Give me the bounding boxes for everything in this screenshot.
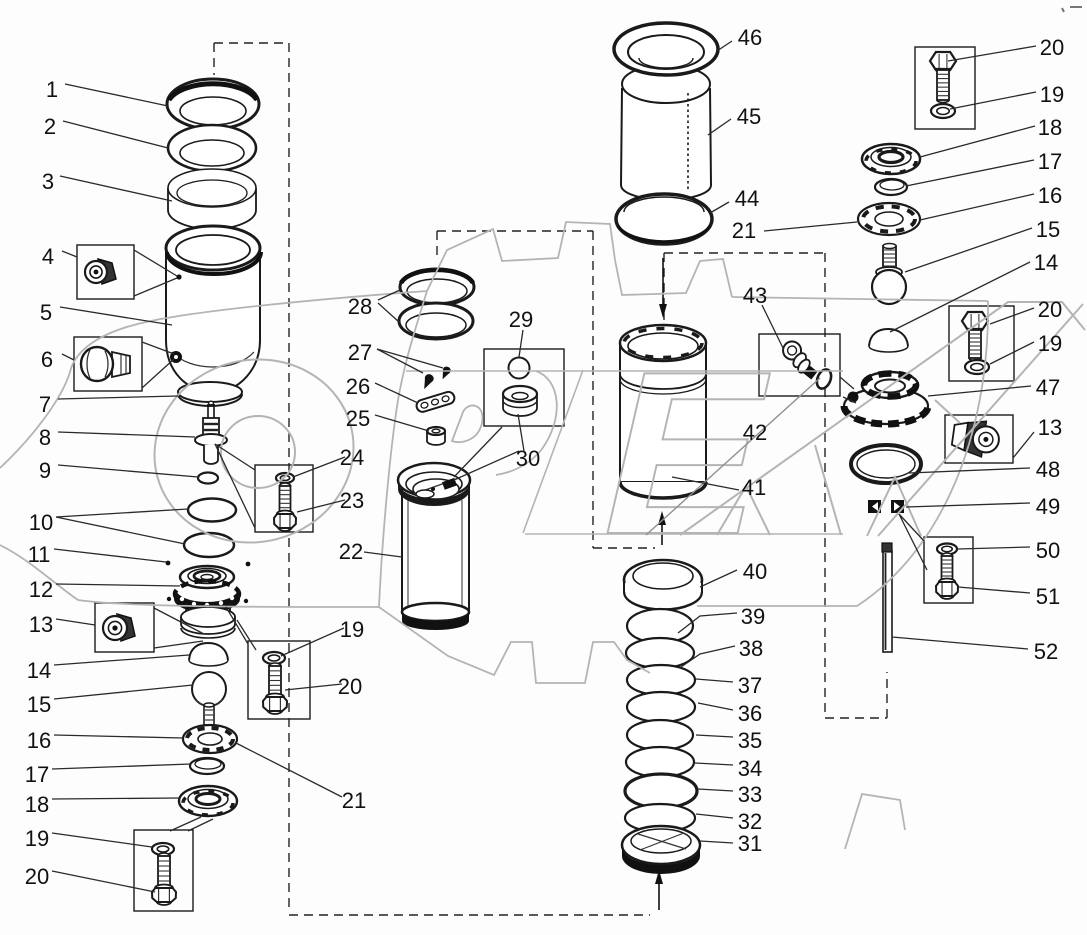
svg-text:2: 2 [44, 114, 56, 139]
part 43 grease fitting (boxed) [777, 338, 823, 381]
svg-text:37: 37 [738, 673, 762, 698]
svg-text:14: 14 [1034, 250, 1058, 275]
svg-text:21: 21 [732, 218, 756, 243]
svg-text:44: 44 [735, 186, 759, 211]
watermark gear teeth bottom [330, 607, 650, 683]
svg-text:24: 24 [340, 445, 364, 470]
svg-text:23: 23 [340, 488, 364, 513]
part 4 plug (boxed) [98, 259, 116, 284]
part 37 spring coil [627, 665, 695, 695]
part 14 cap dome (right) [869, 329, 908, 346]
svg-text:41: 41 [742, 475, 766, 500]
leader lines top middle [717, 41, 732, 51]
svg-text:16: 16 [1038, 183, 1062, 208]
part 28 piston rings [400, 269, 474, 305]
part 16 stem and castellated washer [204, 705, 214, 727]
svg-text:18: 18 [1038, 115, 1062, 140]
part 6 plug (boxed) [112, 352, 130, 377]
svg-text:43: 43 [743, 283, 767, 308]
svg-text:4: 4 [42, 244, 54, 269]
part 17 ring (right) [875, 179, 907, 195]
svg-text:1: 1 [46, 77, 58, 102]
detail box part 13 right [945, 415, 1013, 463]
part 52 rod [883, 551, 892, 652]
detail box parts 20-19 top right [915, 47, 975, 129]
part 22 inner lid [413, 479, 459, 499]
part 36 spring coil [627, 692, 695, 722]
part 10 o-ring a [188, 499, 236, 522]
part 34 spring coil [626, 747, 694, 777]
svg-text:20: 20 [338, 674, 362, 699]
svg-text:15: 15 [27, 692, 51, 717]
part 22 cylinder tube [402, 485, 469, 613]
svg-text:6: 6 [41, 347, 53, 372]
part 12 lower flange [186, 603, 230, 614]
part 2 sealing ring [168, 125, 256, 171]
part 40 upper spring seat [624, 560, 702, 600]
part 32 spring coil [625, 804, 695, 832]
svg-text:17: 17 [1038, 149, 1062, 174]
detail box parts 50-51 [924, 537, 973, 603]
part 35 spring coil [627, 720, 693, 750]
part 29 ball (boxed) [509, 358, 530, 379]
svg-text:19: 19 [1038, 331, 1062, 356]
part 20 bolt (mid box) [269, 663, 281, 669]
svg-text:47: 47 [1036, 375, 1060, 400]
watermark gear bottom edge [697, 605, 857, 607]
svg-text:21: 21 [342, 788, 366, 813]
part 18 bearing ring [179, 786, 237, 816]
svg-text:16: 16 [27, 728, 51, 753]
part 30 cap (boxed) [503, 394, 537, 416]
watermark letter E [581, 323, 796, 583]
part 9 o-ring [198, 473, 218, 484]
leader 42 long gray [646, 378, 820, 535]
svg-text:7: 7 [39, 392, 51, 417]
watermark gear top-right edge [732, 297, 988, 301]
svg-text:40: 40 [743, 559, 767, 584]
leader lines right column [948, 46, 1036, 61]
detail box part 43 [759, 334, 840, 396]
part 39 spring coil [627, 609, 693, 643]
part 20 bolt (top right box) [930, 52, 956, 69]
part 51 bolt (boxed) [942, 553, 953, 559]
leader lines left column [65, 84, 168, 106]
part 20 bolt (bottom box) [158, 853, 170, 859]
part 22 top rim [398, 463, 470, 497]
part 5 cylinder body [166, 250, 260, 393]
part 23 bolt (boxed) [280, 483, 291, 489]
svg-text:18: 18 [25, 792, 49, 817]
part 49 retaining clips [868, 500, 881, 513]
part 33 spring coil [625, 774, 697, 808]
svg-text:30: 30 [516, 446, 540, 471]
svg-text:11: 11 [28, 542, 51, 567]
part 41 outer cylinder [620, 343, 706, 482]
watermark letter P bowl [496, 371, 557, 475]
detail box parts 29-30 [484, 349, 564, 426]
detail box parts 19-20 bottom [134, 830, 193, 911]
svg-text:36: 36 [738, 701, 762, 726]
part 13 plug (boxed) [117, 614, 135, 641]
detail box parts 20-19 right mid [949, 306, 1014, 381]
part 13 plug (right box) [951, 417, 1002, 459]
part 25 nut [427, 432, 445, 445]
svg-text:5: 5 [40, 300, 52, 325]
watermark gear left flank mid [379, 291, 427, 607]
svg-text:22: 22 [339, 539, 363, 564]
watermark letter O [135, 339, 373, 564]
part 16 castellated washer (right) [858, 203, 920, 235]
svg-text:9: 9 [39, 458, 51, 483]
watermark gear left flank lower [0, 545, 330, 607]
port for part 6 [170, 351, 182, 363]
svg-text:39: 39 [741, 604, 765, 629]
dashed enclosure left column [214, 42, 289, 44]
part 14 cap dome [189, 643, 228, 660]
part 15 ball stud (right) [883, 246, 896, 269]
leader lines spring [700, 570, 737, 587]
svg-text:42: 42 [743, 420, 767, 445]
svg-text:12: 12 [29, 577, 53, 602]
svg-text:35: 35 [738, 728, 762, 753]
watermark gear fragment bottom right [845, 794, 905, 849]
svg-text:3: 3 [42, 169, 54, 194]
dashed enclosure middle [437, 230, 593, 232]
svg-text:14: 14 [27, 658, 51, 683]
part 26 plate [415, 390, 456, 413]
svg-text:49: 49 [1036, 494, 1060, 519]
part 19 washer (bottom box) [152, 843, 174, 855]
part 7 diaphragm dish [178, 382, 242, 402]
leader lines middle column [378, 290, 400, 300]
svg-text:51: 51 [1036, 584, 1060, 609]
detail box part 4 [77, 245, 134, 299]
part 46 top ring [614, 23, 718, 75]
svg-text:29: 29 [509, 307, 533, 332]
arrow up under cylinder 41 [661, 524, 663, 545]
part 3 guide ring [168, 188, 256, 229]
part 20 bolt (right mid box) [962, 312, 988, 329]
svg-text:46: 46 [738, 25, 762, 50]
dashed enclosure right [664, 252, 825, 254]
svg-text:27: 27 [348, 340, 372, 365]
watermark rule lines [406, 370, 843, 372]
part 45 boot sleeve [621, 88, 711, 200]
part 19 washer (mid box) [263, 652, 285, 664]
part 38 spring coil [626, 638, 694, 668]
detail box part 13 [95, 603, 154, 652]
part 27 detent cones [420, 373, 435, 391]
hole for part 4 [176, 274, 181, 279]
svg-text:10: 10 [29, 510, 53, 535]
arrow down to cylinder [662, 258, 664, 306]
part 48 o-ring large [851, 445, 921, 483]
svg-text:31: 31 [738, 831, 762, 856]
part 10 o-ring b [184, 533, 234, 557]
svg-text:38: 38 [739, 636, 763, 661]
svg-text:19: 19 [1040, 82, 1064, 107]
watermark letter X strokes [717, 486, 770, 535]
part 1 sealing ring [167, 79, 259, 129]
svg-text:20: 20 [1038, 297, 1062, 322]
leader lines 21 23 24 19 20 [236, 743, 342, 797]
detail box parts 23-24 [255, 465, 313, 532]
svg-text:50: 50 [1036, 538, 1060, 563]
part 17 ring [190, 758, 224, 774]
part 11 pin holes [166, 561, 171, 566]
svg-text:25: 25 [346, 406, 370, 431]
part 44 lower ring [616, 194, 712, 244]
part 19 washer (top right box) [931, 104, 955, 118]
part 50 washer (boxed) [937, 544, 957, 555]
svg-text:17: 17 [25, 762, 49, 787]
leader lines pointer 43 to bearing [840, 377, 854, 389]
svg-text:34: 34 [738, 756, 762, 781]
svg-text:8: 8 [39, 425, 51, 450]
part 42 o-ring [814, 367, 834, 390]
svg-text:19: 19 [25, 826, 49, 851]
svg-text:15: 15 [1036, 217, 1060, 242]
part 18 bearing (right) [862, 144, 920, 174]
svg-text:20: 20 [1040, 35, 1064, 60]
detail box parts 19-20 mid [248, 641, 310, 719]
svg-text:45: 45 [737, 104, 761, 129]
svg-text:13: 13 [29, 612, 53, 637]
svg-text:28: 28 [348, 294, 372, 319]
watermark gear right arc [857, 301, 988, 606]
watermark gear teeth top [427, 222, 732, 297]
svg-text:19: 19 [340, 617, 364, 642]
part 19 washer (right mid box) [965, 360, 989, 374]
svg-text:13: 13 [1038, 415, 1062, 440]
part 22 bottom band [402, 603, 469, 621]
arrow up under spring [658, 882, 660, 910]
part 15 ball [192, 672, 226, 706]
part 12 bearing assembly [180, 566, 234, 588]
svg-text:26: 26 [346, 374, 370, 399]
part 31 lower spring seat [622, 826, 700, 864]
watermark gear left flank upper [0, 291, 427, 468]
svg-text:52: 52 [1034, 639, 1058, 664]
detail box part 6 [74, 337, 142, 391]
svg-text:20: 20 [25, 864, 49, 889]
part 8 valve assembly [207, 404, 209, 418]
part 24 washer (boxed) [276, 473, 294, 483]
corner marks [1062, 8, 1064, 12]
part 47 bearing support [844, 388, 928, 424]
watermark baseline [525, 533, 843, 535]
svg-text:33: 33 [738, 782, 762, 807]
svg-text:48: 48 [1036, 457, 1060, 482]
